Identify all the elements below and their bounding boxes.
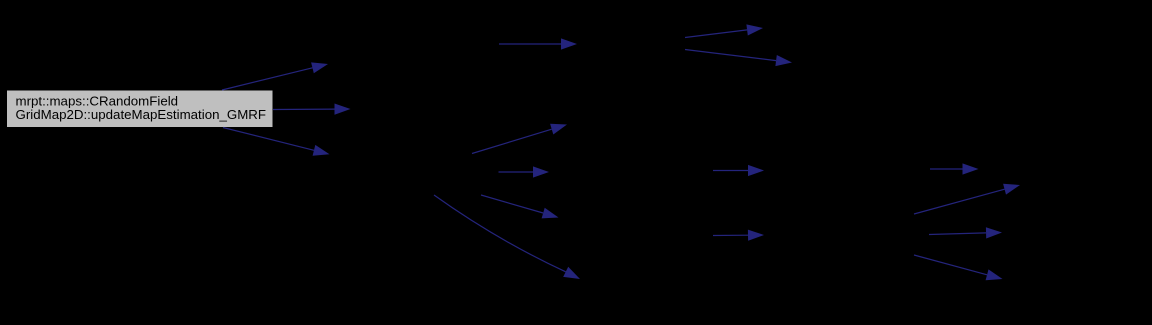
wire: edge E5 node D -> node E (685, 24, 763, 37)
wire: edge E4 node A -> node D (499, 38, 577, 49)
node: mrpt::maps::CRandomFieldGridMap2D::updateMapEstimation_GMRF (grey box) (7, 90, 274, 128)
wire: edge E12 node I -> node L (713, 230, 764, 241)
wire: edge E10 node C -> node J (curved) (434, 195, 580, 279)
wire: edge E11 node H -> node K (713, 165, 764, 176)
wire: edge E6 node D -> node F (685, 50, 792, 67)
wire: edge E8 node C -> node H (499, 166, 550, 177)
wire: edge E2 grey box -> node B (273, 104, 351, 115)
wire: edge E14 node L -> node N (914, 184, 1020, 214)
svg-text:GridMap2D::updateMapEstimation: GridMap2D::updateMapEstimation_GMRF (16, 107, 267, 122)
wire: edge E1 grey box -> node A (222, 62, 328, 90)
wire: edge E3 grey box -> node C (223, 128, 330, 156)
wire: edge E15 node L -> node O (929, 227, 1002, 238)
wire: edge E16 node L -> node P (914, 255, 1003, 280)
wire: edge E7 node C -> node G (472, 124, 567, 154)
wire: edge E9 node C -> node I (481, 195, 559, 218)
wire: edge E13 node K -> node M (930, 163, 979, 174)
svg-text:mrpt::maps::CRandomField: mrpt::maps::CRandomField (16, 93, 179, 108)
